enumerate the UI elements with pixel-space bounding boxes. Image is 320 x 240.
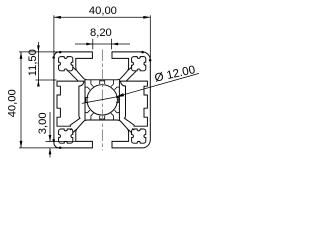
web top-right: [128, 67, 131, 70]
screw channel top-right: [132, 57, 146, 71]
svg-text:8,20: 8,20: [90, 27, 112, 39]
leader for diameter 12.00: [82, 97, 115, 103]
dimension 3,00: dimension line with outside arrows: [49, 112, 51, 142]
diagonal pocket SE: [111, 113, 114, 120]
screw channel bottom-left: [59, 129, 73, 143]
diagonal pocket NW: [91, 80, 94, 87]
svg-text:40,00: 40,00: [89, 5, 117, 17]
svg-text:40,00: 40,00: [6, 89, 18, 117]
web top-left: [73, 67, 76, 70]
diagonal pocket SW: [91, 113, 94, 120]
core wall right: [118, 80, 120, 120]
notch S: [100, 116, 105, 119]
vertical centerline: [101, 50, 103, 151]
svg-text:3,00: 3,00: [37, 112, 49, 134]
diagonal pocket NE: [111, 80, 114, 87]
dimension 40,00 top: dimension line: [54, 16, 150, 18]
screw channel bottom-right: [132, 129, 146, 143]
web bottom-left: [73, 130, 76, 133]
core wall left: [84, 80, 86, 120]
left slot cavity (closed): [57, 81, 84, 126]
dimension 11,50: dimension line with outside arrows: [37, 42, 39, 85]
dimension 8,20: extension lines: [92, 39, 94, 50]
web bottom-right: [128, 130, 131, 133]
corner tangent dots: [59, 51, 62, 54]
dimension 8,20: dimension line with outside arrows: [75, 43, 130, 45]
profile outer contour with top and bottom slot openings: [54, 52, 150, 148]
dimension 40,00 left: extension lines: [19, 51, 60, 53]
dimension 40,00 left: dimension line: [20, 52, 22, 148]
notch E: [116, 97, 119, 102]
dimension 40,00 top: extension lines: [53, 15, 55, 57]
dimension 11,50: extension line: [36, 79, 57, 81]
notch N: [100, 81, 105, 84]
dimension 3,00: extension line: [46, 141, 76, 143]
svg-text:11,50: 11,50: [27, 49, 39, 76]
central bore circle: [87, 85, 117, 115]
notch W: [86, 97, 89, 102]
right slot cavity (closed): [121, 81, 148, 126]
screw channel top-left: [59, 57, 73, 71]
